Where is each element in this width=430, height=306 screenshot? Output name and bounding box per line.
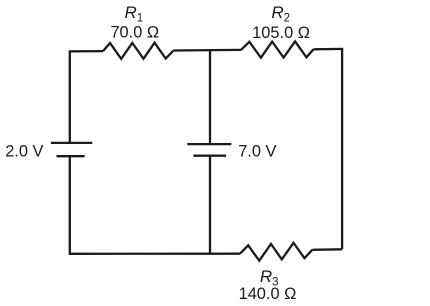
battery V1 long plate (+) — [51, 142, 92, 144]
svg-text:R1: R1 — [125, 3, 144, 25]
battery V1 short plate (-) — [57, 155, 85, 157]
svg-text:140.0 Ω: 140.0 Ω — [239, 285, 297, 303]
resistor R2 — [241, 41, 314, 57]
svg-text:105.0 Ω: 105.0 Ω — [252, 24, 310, 42]
battery V2 long plate (+) — [187, 143, 231, 145]
svg-text:R2: R2 — [271, 3, 290, 25]
wire top-right + right vertical — [314, 49, 343, 249]
wire left-top (left vertical upper half + top-left horizontal) — [70, 51, 103, 143]
resistor R1 — [103, 43, 174, 59]
wire bottom-right stub — [312, 248, 342, 251]
wire middle-branch lower — [209, 156, 211, 254]
svg-text:2.0 V: 2.0 V — [5, 142, 43, 160]
wire middle-branch upper — [209, 50, 211, 144]
wire top-middle (R1 to R2 through node) — [174, 49, 242, 52]
svg-text:70.0 Ω: 70.0 Ω — [110, 24, 159, 42]
battery V2 short plate (-) — [193, 155, 226, 157]
wire bottom-left + left vertical lower half — [70, 156, 240, 254]
resistor R3 — [240, 243, 312, 261]
svg-text:7.0 V: 7.0 V — [238, 143, 276, 161]
